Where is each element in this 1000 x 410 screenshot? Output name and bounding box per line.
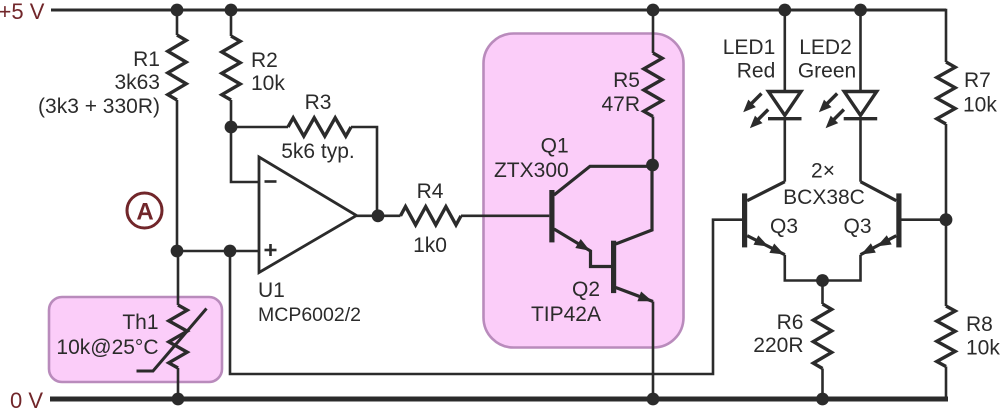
Q3 left label: [770, 215, 798, 238]
svg-text:10k@25°C: 10k@25°C: [56, 336, 158, 359]
wire R1 to node: [176, 100, 179, 251]
LED1 emission arrows: [743, 94, 768, 129]
svg-text:+5 V: +5 V: [0, 0, 45, 24]
svg-text:MCP6002/2: MCP6002/2: [258, 304, 361, 326]
resistor R1: [168, 35, 186, 100]
LED2 symbol: [844, 92, 878, 119]
wire R5 to collector node: [652, 117, 655, 166]
svg-text:Q3: Q3: [770, 215, 798, 238]
Q3 right label: [843, 215, 871, 238]
node A symbol: [127, 193, 162, 228]
svg-text:R5: R5: [613, 69, 640, 92]
svg-text:R8: R8: [966, 313, 993, 336]
svg-text:Q1: Q1: [541, 135, 569, 158]
junction dot R1 top: [171, 4, 184, 17]
thermistor Th1: [169, 305, 187, 368]
svg-text:R2: R2: [251, 49, 278, 72]
wire +5V to R5: [652, 10, 655, 53]
svg-text:Red: Red: [737, 60, 776, 83]
svg-text:R1: R1: [133, 48, 160, 71]
+5 V label: [0, 0, 45, 24]
LED2 emission arrows: [819, 94, 844, 129]
R8 label: [966, 313, 1000, 360]
svg-text:LED2: LED2: [799, 36, 852, 59]
0 V label: [10, 388, 43, 410]
LED1 label: [723, 36, 776, 83]
svg-text:R7: R7: [964, 69, 991, 92]
wire R4 to Q1 base: [461, 215, 549, 218]
R3 label: [281, 91, 355, 163]
Q2 emitter: [616, 288, 653, 302]
junction dot plus input node: [224, 245, 237, 258]
svg-text:R4: R4: [417, 180, 444, 203]
wire Q2 emitter to 0V: [652, 302, 655, 400]
Q3 right collector: [861, 182, 897, 201]
R6 label: [753, 311, 803, 357]
wire R3 to output: [351, 127, 377, 216]
wire +5V to R1: [176, 10, 179, 35]
Th1 diagonal stroke: [137, 309, 207, 372]
resistor R2: [222, 36, 240, 100]
wire op-amp output: [357, 215, 401, 218]
svg-text:10k: 10k: [966, 337, 1000, 360]
wire R6 to 0V: [821, 369, 824, 400]
svg-text:ZTX300: ZTX300: [494, 159, 569, 182]
junction dot Th1 bottom: [172, 393, 185, 406]
wire R7 to node: [945, 124, 948, 220]
resistor R3: [288, 118, 351, 136]
svg-text:U1: U1: [258, 279, 285, 302]
wire node to op-amp minus input: [231, 127, 259, 182]
svg-text:R6: R6: [777, 311, 804, 334]
wire LED1 to Q3 collector: [783, 118, 786, 181]
Q2 label: [531, 278, 601, 326]
svg-text:LED1: LED1: [723, 36, 776, 59]
resistor R7: [937, 62, 955, 124]
wire Th1 to 0V: [177, 368, 180, 399]
transistor Q1 base bar: [549, 190, 554, 242]
R4 label: [413, 180, 447, 257]
Th1 label: [56, 311, 158, 359]
+5 V rail wire: [51, 9, 946, 12]
wire Q3 right emitter down: [823, 255, 861, 281]
junction dot R7/R8 node: [940, 213, 953, 226]
op-amp minus sign: [265, 180, 277, 183]
junction dot inverting node: [225, 121, 238, 134]
wire +5V to LED1: [783, 10, 786, 92]
transistor Q3 right base bar: [896, 193, 901, 247]
U1 label: [258, 279, 361, 326]
svg-text:R3: R3: [305, 91, 332, 114]
svg-text:5k6 typ.: 5k6 typ.: [281, 140, 355, 163]
junction dot LED1 top: [778, 4, 791, 17]
Q3 left emitter (double arrow): [747, 235, 785, 254]
highlight box for Q1/Q2: [484, 34, 684, 348]
junction dot LED2 top: [854, 4, 867, 17]
svg-text:10k: 10k: [251, 72, 285, 95]
wire node to Th1: [177, 251, 180, 305]
resistor R6: [813, 304, 831, 369]
wire node to R3: [229, 126, 288, 129]
transistor Q2 base bar: [611, 241, 616, 293]
svg-text:Th1: Th1: [122, 311, 158, 334]
wire emitters to R6: [821, 281, 824, 305]
svg-text:BCX38C: BCX38C: [783, 186, 865, 209]
LED2 label: [798, 36, 856, 83]
R5 label: [601, 69, 640, 116]
svg-text:0 V: 0 V: [10, 388, 43, 410]
LED1 symbol: [768, 92, 802, 119]
svg-text:47R: 47R: [601, 93, 640, 116]
svg-text:A: A: [136, 199, 153, 226]
Q1 label: [494, 135, 569, 183]
wire R1 node to plus input: [177, 250, 259, 253]
Q3 left collector: [747, 182, 785, 201]
svg-text:(3k3 + 330R): (3k3 + 330R): [38, 95, 160, 118]
transistor Q3 left base bar: [742, 193, 747, 247]
junction dot R6 bottom: [816, 393, 829, 406]
wire LED2 to Q3 collector: [859, 118, 862, 181]
resistor R8: [937, 306, 955, 367]
Q3 right emitter (double arrow): [861, 235, 897, 255]
Q2 collector: [616, 168, 652, 244]
junction dot R5 top: [647, 4, 660, 17]
junction dot emitters: [816, 274, 829, 287]
wire R8 to 0V: [945, 367, 948, 400]
wire R2 to inverting node: [230, 100, 233, 129]
Q1 emitter: [554, 229, 611, 267]
junction dot collector node: [646, 159, 659, 172]
0 V rail wire: [50, 397, 948, 402]
svg-text:TIP42A: TIP42A: [531, 303, 601, 326]
wire +5V to LED2: [859, 10, 862, 92]
op-amp plus sign: [265, 244, 277, 256]
wire plus node down-right-up to Q3 base: [230, 220, 742, 374]
op-amp U1: [259, 157, 357, 273]
junction dot output: [372, 209, 385, 222]
R2 label: [251, 49, 285, 95]
Q1 collector: [554, 166, 651, 195]
wire Q3 left emitter down: [785, 255, 823, 281]
junction dot R2 top: [225, 4, 238, 17]
svg-text:Q2: Q2: [572, 278, 600, 301]
svg-text:220R: 220R: [753, 334, 803, 357]
svg-text:Q3: Q3: [843, 215, 871, 238]
wire +5V corner to R7: [945, 10, 947, 62]
R1 label: [38, 48, 160, 118]
junction dot R1 node: [171, 245, 184, 258]
wire +5V to R2: [230, 10, 233, 36]
R7 label: [963, 69, 997, 117]
svg-text:1k0: 1k0: [413, 234, 447, 257]
svg-text:Green: Green: [798, 60, 856, 83]
resistor R4: [401, 207, 462, 225]
resistor R5: [644, 53, 662, 117]
svg-text:3k63: 3k63: [114, 71, 160, 94]
2x BCX38C label: [783, 160, 865, 210]
wire Q3 right base: [902, 218, 947, 221]
highlight box for Th1: [49, 297, 222, 382]
junction dot Q2 emitter bottom: [647, 393, 660, 406]
svg-text:10k: 10k: [963, 94, 997, 117]
wire node to R8: [945, 220, 948, 306]
svg-text:2×: 2×: [811, 160, 835, 183]
